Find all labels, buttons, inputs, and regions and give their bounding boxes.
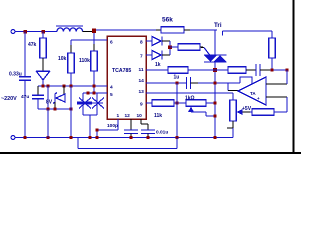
label 47k	[28, 42, 37, 48]
pot wiper arrow	[188, 107, 215, 116]
junction D1-8V rail	[41, 84, 44, 87]
svg-text:0.01u: 0.01u	[156, 130, 168, 136]
junction rail x25	[23, 136, 26, 139]
wire 56k to triac MT2	[190, 29, 217, 31]
svg-text:10k: 10k	[58, 56, 67, 62]
resistor 47k	[40, 32, 46, 59]
wire cap 1u to op-amp	[198, 82, 240, 84]
junction top rail A	[23, 30, 26, 33]
junction sync line 110k	[92, 91, 95, 94]
wire sync left drop	[82, 93, 84, 115]
wire pin13 line	[146, 93, 233, 100]
junction 8V rail zener	[62, 84, 65, 87]
junction rail x71	[69, 136, 72, 139]
label +5V	[242, 106, 252, 112]
pin 10 label	[137, 113, 143, 119]
pin 8 label	[140, 40, 143, 46]
wire top right to resistor R8	[223, 30, 273, 32]
pin 14 label	[139, 78, 145, 84]
svg-text:9: 9	[140, 102, 143, 108]
diode D2	[152, 37, 170, 48]
label 470u	[21, 94, 29, 100]
svg-text:47k: 47k	[28, 42, 37, 48]
svg-text:7: 7	[140, 54, 143, 60]
junction pin1 jog	[95, 128, 98, 131]
capacitor 470u	[32, 86, 44, 109]
label 1kOhm	[185, 96, 195, 102]
svg-text:8: 8	[140, 40, 143, 46]
wire pin6 line	[71, 40, 107, 45]
svg-text:14: 14	[139, 78, 145, 84]
zener pair D5	[92, 98, 104, 109]
wire top rail	[15, 31, 57, 33]
wire pin9	[146, 102, 152, 104]
junction feedback top right	[285, 68, 288, 71]
pin 11 label	[139, 67, 144, 73]
op-amp U2	[238, 77, 266, 105]
wire pin7	[146, 54, 152, 56]
junction return x48	[46, 107, 49, 110]
resistor bottom right	[250, 109, 287, 115]
label 1u	[174, 75, 180, 81]
svg-text:~220V: ~220V	[1, 96, 17, 102]
svg-text:110k: 110k	[79, 58, 90, 64]
wire pin8	[146, 40, 152, 42]
svg-text:1u: 1u	[174, 75, 180, 81]
svg-text:1k: 1k	[155, 62, 161, 68]
pin 9 label	[140, 102, 143, 108]
resistor 110k	[91, 44, 97, 93]
pin 4 label	[110, 85, 113, 91]
resistor 11k	[152, 100, 186, 106]
wire stub node top right	[222, 31, 224, 36]
frame bottom border	[0, 152, 301, 154]
svg-text:TCA785: TCA785	[112, 68, 131, 74]
wire node C down	[93, 33, 95, 44]
junction return 10k column	[69, 107, 72, 110]
wire feedback bus upper	[286, 70, 288, 84]
terminal input top	[11, 30, 15, 34]
svg-text:56k: 56k	[162, 17, 173, 24]
pot wiper arrow left	[237, 109, 251, 115]
diode D3	[152, 47, 170, 60]
label 0.01u	[156, 130, 168, 136]
wire pin1 ground jog	[97, 119, 118, 138]
wire 47k diode column to rail	[47, 109, 49, 138]
label ~220V	[1, 96, 17, 102]
inductor L1	[56, 26, 83, 32]
wire node C to resistor 56k	[96, 29, 156, 31]
junction pin14 line x217	[213, 81, 216, 84]
junction sync line left	[86, 91, 89, 94]
label 100p	[107, 123, 118, 129]
junction rail C10	[146, 136, 149, 139]
wire sync cross bar	[77, 102, 103, 104]
potentiometer 1k	[186, 100, 215, 106]
wire triac MT1 down	[214, 61, 216, 138]
svg-text:8V: 8V	[46, 100, 53, 106]
pin 7 label	[140, 54, 143, 60]
svg-text:47u: 47u	[21, 94, 29, 100]
label 10k	[58, 56, 67, 62]
pin 13 label	[139, 89, 145, 95]
resistor R8 vertical top right	[269, 31, 275, 70]
capacitor C12	[124, 119, 138, 138]
resistor R9	[228, 67, 256, 73]
potentiometer vertical	[227, 100, 236, 138]
junction R8 bottom	[270, 68, 273, 71]
svg-text:11: 11	[139, 67, 144, 73]
svg-text:1: 1	[117, 113, 120, 119]
junction pot right	[213, 101, 216, 104]
wire gate diagonal	[204, 48, 210, 56]
pin 5 label	[110, 92, 113, 98]
wire sync bottom	[83, 115, 97, 138]
resistor gate	[178, 44, 204, 50]
resistor R7	[168, 67, 228, 73]
label 1k R7	[155, 62, 161, 68]
node C junction	[92, 29, 96, 33]
wire pin14 line	[146, 82, 186, 84]
pin 1 label	[117, 113, 120, 119]
zener pair D4	[77, 98, 92, 109]
resistor 56k	[156, 27, 190, 33]
junction rail x48	[46, 136, 49, 139]
wire ramp node vertical	[176, 83, 178, 138]
junction ramp node	[175, 101, 178, 104]
wire pin11 line	[146, 69, 168, 71]
svg-text:12: 12	[125, 113, 131, 119]
wire feedback bus lower	[286, 97, 288, 112]
label 0.33u	[9, 72, 22, 78]
svg-text:0.33u: 0.33u	[9, 72, 22, 78]
capacitor 0.33u	[19, 77, 31, 138]
svg-text:TA: TA	[250, 91, 256, 96]
svg-text:100p: 100p	[107, 123, 118, 129]
label 8V	[46, 100, 53, 106]
junction 8V rail 10k	[69, 84, 72, 87]
pin 6 label	[110, 40, 113, 46]
label 110k	[79, 58, 90, 64]
svg-text:5: 5	[110, 92, 113, 98]
label Tri	[214, 22, 222, 29]
junction 8V rail 110k	[92, 84, 95, 87]
svg-text:10: 10	[137, 113, 143, 119]
junction top rail B	[41, 30, 44, 33]
terminal input bottom	[11, 136, 15, 140]
label 56k	[162, 17, 173, 24]
chip U1 TCA785	[107, 36, 146, 119]
label 11k	[154, 113, 162, 119]
wire triac column	[214, 30, 216, 56]
svg-text:Tri: Tri	[214, 22, 222, 29]
junction pin14 line x177	[175, 81, 178, 84]
resistor 10k	[68, 45, 74, 86]
junction diode OR node	[168, 45, 172, 49]
capacitor C5	[256, 64, 287, 76]
wire inductor to node C	[83, 31, 94, 33]
wire op-amp input stub bottom	[266, 96, 287, 98]
wire op-amp input stub top	[266, 83, 287, 85]
junction wiper bus	[213, 114, 216, 117]
wire OR node to gate resistor	[170, 46, 178, 48]
svg-text:1kΩ: 1kΩ	[185, 96, 195, 102]
svg-text:4: 4	[110, 85, 113, 91]
svg-text:+5V: +5V	[242, 106, 252, 112]
junction rail x177	[175, 136, 178, 139]
wire pin5 sync line	[83, 92, 107, 94]
wire lower 8V return	[38, 108, 71, 110]
wire sync right drop	[96, 93, 98, 115]
wire 10k column to ground	[70, 86, 72, 138]
pin 12 label	[125, 113, 131, 119]
junction return zener	[53, 107, 56, 110]
diode D1	[36, 58, 50, 86]
wire 8V rail	[38, 85, 107, 87]
svg-text:13: 13	[139, 89, 145, 95]
ground rail	[15, 137, 233, 139]
junction rail x90	[88, 136, 91, 139]
capacitor C10	[141, 119, 155, 138]
junction triac-R11 line	[213, 68, 217, 72]
wire feedback step	[240, 77, 252, 84]
svg-text:11k: 11k	[154, 113, 162, 119]
zener 8V	[53, 86, 65, 109]
junction 8V rail x48	[46, 84, 49, 87]
svg-text:+: +	[257, 96, 260, 101]
triac Tri symbol	[204, 55, 227, 62]
junction rail x97	[95, 136, 98, 139]
wire x48 between rails	[47, 86, 49, 109]
wire left column mains	[24, 32, 26, 77]
wire bottom loop	[78, 138, 177, 149]
frame right border	[293, 0, 295, 153]
wire branch to op-amp output	[228, 83, 238, 91]
svg-text:6: 6	[110, 40, 113, 46]
capacitor 1u	[187, 77, 199, 89]
junction rail x217	[213, 136, 216, 139]
junction rail C12	[129, 136, 132, 139]
